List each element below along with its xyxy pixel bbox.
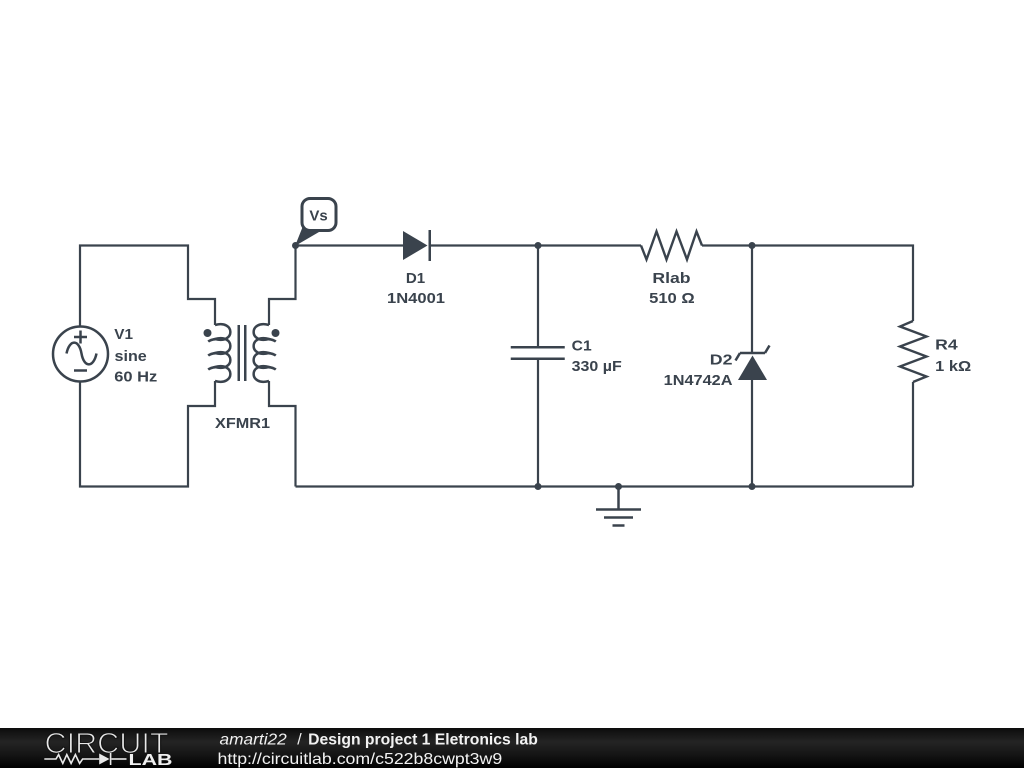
svg-text:1N4742A: 1N4742A [664, 372, 733, 389]
svg-text:330 µF: 330 µF [572, 358, 622, 375]
voltage source V1 [53, 327, 108, 382]
junction dot C1 bottom [535, 483, 542, 490]
wire C1 node to Rlab left [538, 244, 641, 246]
svg-text:sine: sine [115, 348, 147, 365]
wire bottom rail [296, 485, 914, 487]
resistor Rlab [641, 232, 702, 260]
zener diode D2 [736, 346, 770, 381]
svg-text:Vs: Vs [309, 208, 327, 225]
node Vs bubble [302, 199, 336, 231]
XFMR1 phase dot secondary [272, 329, 280, 337]
svg-text:1N4001: 1N4001 [387, 290, 445, 307]
label C1 value [572, 338, 622, 376]
CircuitLab logo resistor-diode glyph [44, 753, 126, 765]
svg-text:R4: R4 [935, 336, 958, 353]
wire V1 bottom to XFMR1 primary bottom [80, 381, 215, 487]
wire C1 top lead [537, 246, 539, 348]
svg-text:60 Hz: 60 Hz [114, 368, 157, 385]
junction dot at Vs node [292, 242, 299, 249]
label V1 value [114, 326, 157, 385]
wire top rail Vs node to D1 anode [296, 244, 404, 246]
label D1 value [387, 270, 445, 307]
transformer XFMR1 secondary winding [254, 324, 276, 382]
junction dot C1 top [535, 242, 542, 249]
wire V1 top to XFMR1 primary top [80, 246, 215, 328]
svg-text:amarti22 / Design project 1 El: amarti22 / Design project 1 Eletronics l… [220, 732, 539, 749]
wire D2 top lead [751, 246, 753, 354]
wire XFMR1 secondary bottom to bottom rail [269, 381, 296, 487]
svg-text:1 kΩ: 1 kΩ [935, 358, 971, 375]
wire R4 bottom lead [912, 382, 914, 487]
svg-text:C1: C1 [572, 338, 592, 355]
footer bar [0, 728, 1024, 768]
label D2 value [664, 352, 733, 390]
wire XFMR1 secondary top to node Vs [269, 246, 296, 326]
transformer XFMR1 core [239, 325, 246, 381]
wire C1 bottom lead [537, 359, 539, 487]
svg-text:V1: V1 [114, 326, 133, 343]
ground [596, 487, 641, 526]
wire D2 node to R4 top [752, 246, 913, 322]
svg-text:XFMR1: XFMR1 [215, 415, 270, 432]
svg-text:Rlab: Rlab [652, 270, 690, 287]
svg-text:LAB: LAB [129, 752, 173, 768]
junction dot ground [615, 483, 622, 490]
label Rlab value [649, 270, 695, 307]
svg-text:D1: D1 [406, 270, 425, 287]
junction dot D2 bottom [749, 483, 756, 490]
transformer XFMR1 primary winding [208, 324, 230, 382]
svg-text:http://circuitlab.com/c522b8cw: http://circuitlab.com/c522b8cwpt3w9 [218, 751, 503, 768]
resistor R4 [900, 321, 927, 382]
label R4 value [935, 336, 971, 375]
wire Rlab right to D2 node [702, 244, 752, 246]
diode D1 [403, 230, 430, 261]
svg-text:D2: D2 [710, 352, 733, 369]
svg-text:510 Ω: 510 Ω [649, 290, 695, 307]
capacitor C1 [511, 347, 565, 359]
junction dot D2 top [749, 242, 756, 249]
XFMR1 phase dot primary [204, 329, 212, 337]
node Vs flag pointer [295, 226, 319, 246]
wire D2 bottom lead [751, 380, 753, 487]
wire D1 cathode to C1 node [430, 244, 538, 246]
